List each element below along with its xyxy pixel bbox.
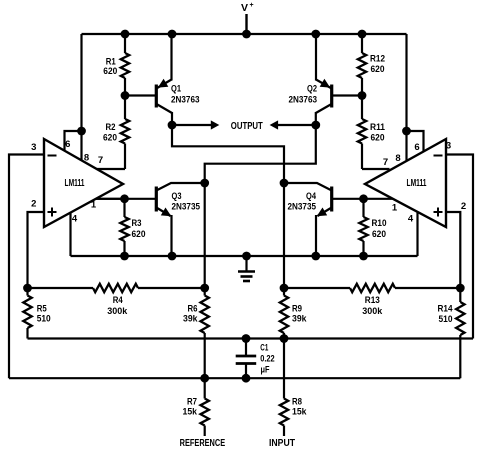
- wire: left pin-6 strobe loop: [65, 131, 82, 152]
- resistor R10 620: [359, 199, 386, 256]
- junction dot 19 (315.8,256): [311, 252, 320, 261]
- resistor R11 620: [358, 96, 386, 170]
- svg-text:2N3763: 2N3763: [171, 95, 200, 106]
- resistor R7 15k: [183, 378, 209, 436]
- wire: left pin 1 to Q3 base: [96, 198, 125, 200]
- svg-text:C1: C1: [260, 343, 268, 354]
- wire: left pin 4 to ground rail: [69, 213, 71, 256]
- svg-text:R2: R2: [106, 122, 116, 133]
- svg-text:μF: μF: [261, 365, 270, 376]
- wire: Q1 collector to Q4 node (crossover): [172, 125, 284, 183]
- svg-text:15k: 15k: [292, 407, 307, 418]
- svg-text:Q2: Q2: [307, 84, 317, 95]
- wire: left pin 7 to R2: [97, 168, 125, 170]
- svg-text:8: 8: [395, 153, 400, 164]
- junction dot 3 (246.5,34): [242, 30, 251, 39]
- resistor R6 39k: [183, 288, 209, 378]
- wire: Q3 node to R6: [204, 183, 206, 288]
- svg-text:LM111: LM111: [407, 178, 427, 189]
- svg-text:7: 7: [383, 157, 388, 168]
- wire: right pin 7 to R11: [362, 168, 390, 170]
- junction dot 17 (172,256): [168, 252, 177, 261]
- wire: right pin-6 strobe loop: [407, 131, 424, 153]
- ground symbol: [238, 256, 255, 281]
- svg-text:OUTPUT: OUTPUT: [231, 121, 263, 132]
- junction dot 16 (124.5,256): [120, 252, 129, 261]
- svg-text:Q1: Q1: [171, 84, 182, 95]
- svg-text:510: 510: [439, 314, 453, 325]
- resistor R2 620: [103, 96, 129, 170]
- junction dot 24 (460.3,288): [456, 284, 465, 293]
- resistor R5 510: [23, 288, 50, 339]
- svg-text:3: 3: [446, 141, 451, 152]
- svg-text:7: 7: [98, 155, 103, 166]
- svg-text:REFERENCE: REFERENCE: [180, 438, 226, 449]
- svg-text:1: 1: [91, 200, 97, 211]
- junction dot 13 (284,183): [280, 179, 289, 188]
- svg-text:39k: 39k: [292, 314, 307, 325]
- junction dot 6 (81.5,131): [77, 127, 86, 136]
- svg-text:6: 6: [65, 139, 70, 150]
- junction dot 23 (284,288): [280, 284, 289, 293]
- junction dot 21 (27.5,288): [23, 284, 32, 293]
- resistor R14 510: [438, 288, 465, 378]
- wire: Q2 collector to Q3 node (crossover): [205, 125, 316, 183]
- svg-text:15k: 15k: [183, 407, 198, 418]
- svg-text:V: V: [241, 2, 248, 14]
- wire: top rail to right strobe loop: [405, 34, 407, 131]
- svg-text:620: 620: [371, 133, 385, 144]
- transistor Q2 2N3763: [289, 34, 363, 125]
- svg-text:2N3763: 2N3763: [289, 95, 318, 106]
- wire: right pin-8 stub: [405, 131, 407, 162]
- junction dot 22 (204.7,288): [200, 284, 209, 293]
- svg-text:INPUT: INPUT: [269, 438, 296, 449]
- svg-text:3: 3: [31, 142, 36, 153]
- svg-text:2: 2: [31, 199, 36, 210]
- svg-text:300k: 300k: [107, 306, 128, 317]
- wire: right pin 4 to ground rail: [416, 212, 418, 256]
- junction dot 18 (246.5,256): [242, 252, 251, 261]
- svg-text:6: 6: [414, 142, 419, 153]
- svg-text:+: +: [250, 2, 254, 9]
- junction dot 12 (204.7,183): [200, 179, 209, 188]
- junction dot 2 (172,34): [168, 30, 177, 39]
- op-amp U2 LM111 (right): [365, 139, 446, 227]
- wire: upper feedback line: [28, 337, 474, 339]
- junction dot 9 (362,95.5): [358, 91, 367, 100]
- svg-text:R13: R13: [365, 295, 380, 306]
- resistor R1 620: [103, 34, 129, 96]
- svg-text:2N3735: 2N3735: [172, 202, 201, 213]
- capacitor C1 0.22uF: [236, 339, 275, 379]
- svg-text:8: 8: [84, 153, 89, 164]
- resistor R4 300k: [28, 284, 205, 317]
- svg-text:R3: R3: [132, 218, 142, 229]
- svg-text:620: 620: [103, 133, 117, 144]
- svg-text:4: 4: [408, 214, 414, 225]
- svg-text:300k: 300k: [362, 306, 383, 317]
- wire: top rail to left strobe loop: [80, 34, 82, 131]
- wire: left pin 2 input: [28, 212, 45, 288]
- svg-text:620: 620: [132, 229, 146, 240]
- svg-text:R4: R4: [113, 295, 124, 306]
- junction dot 25 (246,338.5): [242, 334, 251, 343]
- output arrow left: [172, 120, 219, 129]
- wire: right pin 3 feedback: [446, 155, 473, 339]
- junction dot 4 (315.8,34): [311, 30, 320, 39]
- transistor Q4 2N3735: [284, 183, 393, 256]
- svg-text:4: 4: [72, 214, 78, 225]
- svg-text:1: 1: [392, 203, 398, 214]
- svg-text:39k: 39k: [183, 314, 198, 325]
- V+ supply terminal: [241, 2, 254, 34]
- svg-text:R14: R14: [438, 303, 454, 314]
- wire: right pin 2 input: [446, 212, 460, 288]
- svg-text:Q3: Q3: [172, 191, 182, 202]
- junction dot 27 (204.7,378.2): [200, 374, 209, 383]
- svg-text:2N3735: 2N3735: [288, 202, 317, 213]
- svg-text:R12: R12: [370, 54, 385, 65]
- wire: left pin-8 stub: [80, 131, 82, 162]
- svg-text:2: 2: [461, 201, 466, 212]
- svg-text:R11: R11: [370, 122, 386, 133]
- wire: lower feedback line: [9, 377, 460, 379]
- transistor Q3 2N3735: [96, 183, 205, 256]
- output arrow right: [270, 120, 316, 129]
- resistor R12 620: [358, 34, 385, 96]
- junction dot 7 (406.5,131): [402, 127, 411, 136]
- resistor R3 620: [120, 199, 145, 256]
- svg-text:LM111: LM111: [65, 178, 85, 189]
- junction dot 14 (124.5,198.8): [120, 194, 129, 203]
- resistor R13 300k: [284, 284, 460, 317]
- svg-text:510: 510: [37, 314, 51, 325]
- svg-text:Q4: Q4: [306, 191, 317, 202]
- op-amp U1 LM111 (left): [44, 139, 123, 227]
- junction dot 26 (284,338.5): [280, 334, 289, 343]
- junction dot 5 (362,34): [358, 30, 367, 39]
- wire: V+ top rail: [82, 33, 407, 35]
- svg-text:620: 620: [372, 229, 386, 240]
- wire: ground rail: [71, 255, 418, 257]
- junction dot 8 (125,95.5): [121, 91, 130, 100]
- transistor Q1 2N3763: [125, 34, 200, 125]
- svg-text:R10: R10: [372, 218, 387, 229]
- resistor R8 15k: [280, 339, 307, 437]
- junction dot 1 (125,34): [121, 30, 130, 39]
- junction dot 11 (315.8,125): [311, 121, 320, 130]
- junction dot 28 (246,378.2): [242, 374, 251, 383]
- wire: left pin 3 feedback: [9, 155, 44, 379]
- svg-text:620: 620: [103, 66, 117, 77]
- svg-text:620: 620: [371, 64, 385, 75]
- junction dot 10 (172,125): [168, 121, 177, 130]
- wire: Q4 node to R9: [283, 183, 285, 288]
- junction dot 15 (363.5,198.8): [359, 194, 368, 203]
- svg-text:0.22: 0.22: [260, 353, 275, 364]
- junction dot 20 (363.5,256): [359, 252, 368, 261]
- resistor R9 39k: [280, 288, 307, 339]
